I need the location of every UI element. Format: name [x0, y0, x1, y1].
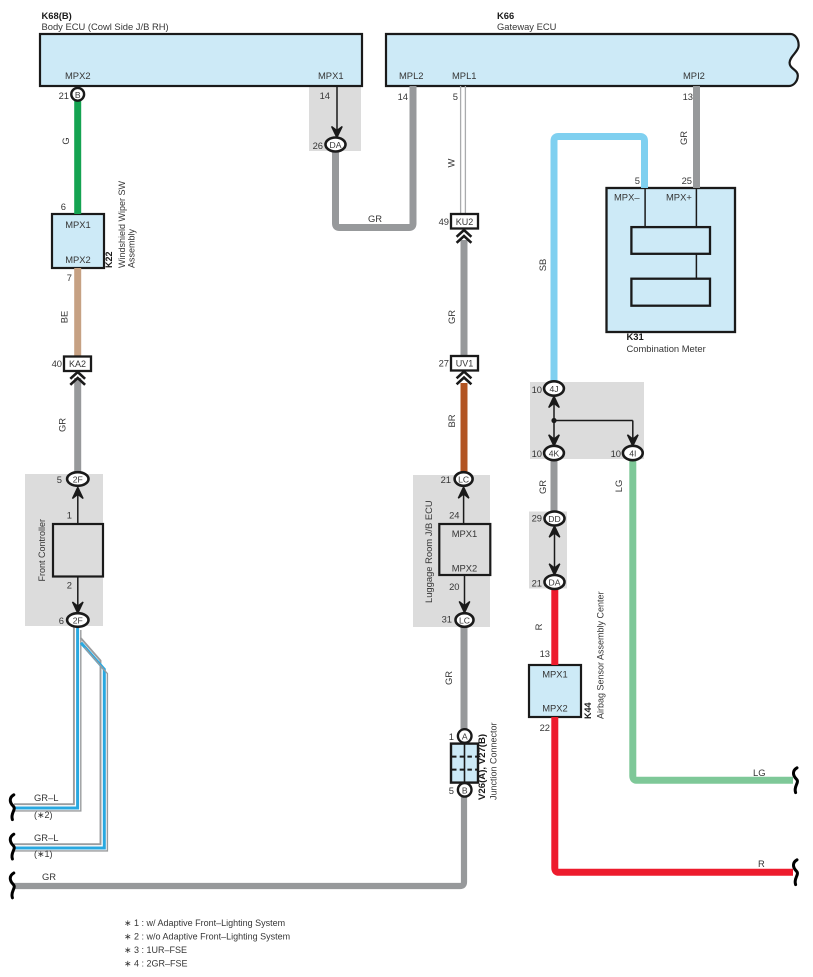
svg-text:V26(A), V27(B): V26(A), V27(B)	[477, 734, 488, 800]
svg-text:∗ 2 : w/o Adaptive Front–Light: ∗ 2 : w/o Adaptive Front–Lighting System	[124, 932, 290, 942]
svg-text:(∗1): (∗1)	[34, 849, 53, 859]
svg-text:GR–L: GR–L	[34, 832, 59, 843]
svg-text:MPX+: MPX+	[666, 192, 692, 203]
svg-text:A: A	[462, 732, 468, 742]
svg-text:10: 10	[611, 448, 621, 459]
svg-text:BE: BE	[59, 311, 70, 324]
svg-text:B: B	[75, 90, 81, 100]
svg-text:KA2: KA2	[69, 359, 86, 369]
svg-text:MPX2: MPX2	[452, 563, 478, 574]
svg-text:MPX1: MPX1	[65, 219, 91, 230]
svg-text:GR: GR	[443, 671, 454, 685]
svg-text:5: 5	[453, 91, 458, 102]
svg-text:40: 40	[52, 358, 62, 369]
svg-text:Airbag Sensor Assembly Center: Airbag Sensor Assembly Center	[596, 591, 606, 719]
svg-text:4J: 4J	[549, 384, 558, 394]
svg-text:B: B	[462, 786, 468, 796]
svg-text:2F: 2F	[73, 475, 83, 485]
svg-text:MPI2: MPI2	[683, 70, 705, 81]
svg-text:Body ECU (Cowl Side J/B RH): Body ECU (Cowl Side J/B RH)	[42, 21, 169, 32]
svg-text:Combination Meter: Combination Meter	[627, 343, 706, 354]
svg-text:MPL1: MPL1	[452, 70, 477, 81]
svg-text:26: 26	[313, 140, 323, 151]
svg-text:22: 22	[540, 722, 550, 733]
svg-text:21: 21	[532, 578, 542, 589]
svg-text:GR: GR	[446, 310, 457, 324]
svg-text:MPX2: MPX2	[65, 254, 91, 265]
svg-text:(∗2): (∗2)	[34, 810, 53, 820]
svg-text:MPX1: MPX1	[318, 70, 344, 81]
svg-text:5: 5	[635, 175, 640, 186]
svg-text:∗ 1 : w/ Adaptive Front–Lighti: ∗ 1 : w/ Adaptive Front–Lighting System	[124, 918, 285, 928]
svg-text:2F: 2F	[73, 616, 83, 626]
svg-text:21: 21	[441, 474, 451, 485]
svg-text:Gateway ECU: Gateway ECU	[497, 21, 557, 32]
svg-text:Luggage Room J/B ECU: Luggage Room J/B ECU	[423, 500, 434, 603]
svg-text:Windshield Wiper SW: Windshield Wiper SW	[117, 180, 127, 268]
svg-text:UV1: UV1	[456, 359, 474, 369]
svg-text:13: 13	[540, 648, 550, 659]
svg-text:Front Controller: Front Controller	[37, 519, 47, 582]
svg-text:1: 1	[449, 731, 454, 742]
svg-text:GR–L: GR–L	[34, 792, 59, 803]
svg-text:10: 10	[532, 448, 542, 459]
svg-text:Assembly: Assembly	[127, 228, 137, 268]
svg-text:DA: DA	[330, 140, 342, 150]
svg-text:K66: K66	[497, 10, 514, 21]
svg-text:LG: LG	[613, 480, 624, 493]
svg-text:4I: 4I	[629, 449, 636, 459]
svg-text:∗ 3 : 1UR–FSE: ∗ 3 : 1UR–FSE	[124, 945, 187, 955]
svg-text:GR: GR	[368, 213, 382, 224]
svg-text:MPL2: MPL2	[399, 70, 424, 81]
svg-text:BR: BR	[446, 414, 457, 427]
svg-text:GR: GR	[678, 131, 689, 145]
svg-text:MPX2: MPX2	[65, 70, 91, 81]
svg-text:49: 49	[439, 216, 449, 227]
svg-text:20: 20	[449, 581, 459, 592]
svg-text:R: R	[758, 858, 765, 869]
svg-text:GR: GR	[57, 418, 68, 432]
svg-text:5: 5	[449, 785, 454, 796]
svg-text:1: 1	[67, 510, 72, 521]
svg-text:LC: LC	[459, 616, 470, 626]
svg-text:∗ 4 : 2GR–FSE: ∗ 4 : 2GR–FSE	[124, 959, 188, 969]
svg-text:GR: GR	[42, 871, 56, 882]
svg-text:14: 14	[320, 90, 330, 101]
svg-text:7: 7	[67, 272, 72, 283]
svg-text:DA: DA	[549, 578, 561, 588]
svg-text:5: 5	[57, 474, 62, 485]
svg-text:KU2: KU2	[456, 217, 474, 227]
svg-text:2: 2	[67, 580, 72, 591]
svg-text:31: 31	[442, 614, 452, 625]
svg-text:14: 14	[398, 91, 408, 102]
svg-text:K22: K22	[104, 251, 114, 268]
svg-text:G: G	[60, 137, 71, 144]
svg-text:4K: 4K	[549, 449, 560, 459]
svg-text:MPX1: MPX1	[452, 528, 478, 539]
svg-text:LC: LC	[458, 475, 469, 485]
svg-text:DD: DD	[548, 514, 560, 524]
svg-text:6: 6	[59, 615, 64, 626]
svg-text:21: 21	[59, 90, 69, 101]
svg-text:24: 24	[449, 510, 459, 521]
svg-text:MPX2: MPX2	[542, 703, 568, 714]
svg-text:MPX1: MPX1	[542, 669, 568, 680]
svg-text:K68(B): K68(B)	[42, 10, 72, 21]
svg-text:GR: GR	[537, 480, 548, 494]
svg-text:K31: K31	[627, 331, 644, 342]
svg-text:27: 27	[439, 358, 449, 369]
svg-text:25: 25	[682, 175, 692, 186]
svg-text:MPX–: MPX–	[614, 192, 640, 203]
svg-text:W: W	[446, 158, 457, 167]
svg-text:10: 10	[532, 384, 542, 395]
svg-text:K44: K44	[583, 702, 593, 719]
svg-text:SB: SB	[537, 259, 548, 272]
svg-text:R: R	[533, 623, 544, 630]
svg-text:Junction Connector: Junction Connector	[489, 722, 499, 800]
svg-text:13: 13	[683, 91, 693, 102]
svg-text:29: 29	[532, 513, 542, 524]
svg-text:LG: LG	[753, 767, 766, 778]
svg-text:6: 6	[61, 201, 66, 212]
